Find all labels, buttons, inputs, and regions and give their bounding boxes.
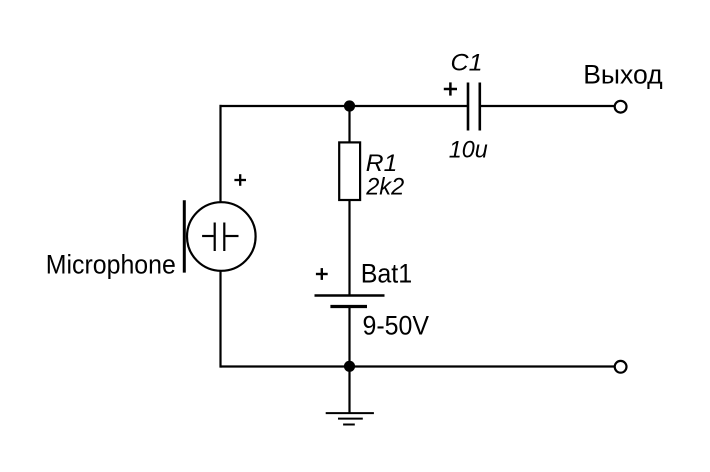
- svg-text:Microphone: Microphone: [46, 250, 176, 280]
- wire left vertical from mic bottom to bottom rail: [219, 270, 221, 368]
- svg-text:Выход: Выход: [583, 60, 663, 90]
- wire resistor bottom to battery: [348, 200, 350, 295]
- wire junction to ground: [348, 367, 350, 414]
- wire junction to resistor top: [348, 106, 350, 142]
- battery Bat1 short plate: [330, 305, 367, 308]
- svg-text:C1: C1: [451, 49, 483, 76]
- node output terminal top: [615, 101, 627, 113]
- node junction dot bottom: [344, 361, 355, 372]
- wire battery to bottom rail: [348, 307, 350, 367]
- battery Bat1 long plate: [315, 294, 385, 296]
- svg-text:10u: 10u: [449, 136, 488, 163]
- svg-text:2k2: 2k2: [365, 173, 404, 200]
- node junction dot top: [344, 100, 355, 111]
- ground: [326, 413, 374, 424]
- microphone plus sign: [234, 174, 246, 186]
- wire vertical from top rail down to microphone: [219, 105, 221, 203]
- wire bottom rail: [221, 365, 616, 367]
- capacitor C1 plate left: [467, 83, 470, 131]
- microphone body circle: [187, 202, 256, 271]
- wire from capacitor to output terminal: [480, 105, 615, 107]
- capacitor C1 plus sign: [444, 82, 457, 95]
- resistor R1 body: [339, 142, 360, 200]
- capacitor C1 plate right: [478, 83, 481, 131]
- wire top rail left (mic top to junction/capacitor): [220, 105, 468, 107]
- svg-text:9-50V: 9-50V: [363, 311, 430, 341]
- microphone membrane bar: [183, 200, 186, 272]
- microphone internal capacitor: [202, 223, 238, 252]
- node output terminal bottom: [615, 361, 627, 373]
- battery plus sign: [316, 268, 328, 280]
- svg-text:Bat1: Bat1: [361, 259, 413, 289]
